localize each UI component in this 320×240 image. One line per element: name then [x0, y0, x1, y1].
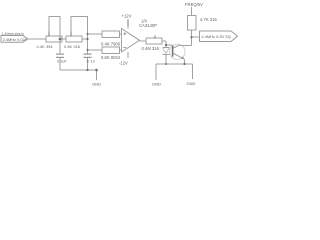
- svg-text:4.4MHz 0-5V SQ: 4.4MHz 0-5V SQ: [202, 34, 231, 39]
- svg-text:0.4K 394: 0.4K 394: [37, 44, 54, 49]
- svg-text:4.7K 316: 4.7K 316: [200, 17, 217, 22]
- svg-text:+12V: +12V: [122, 14, 132, 19]
- svg-text:1.4Vrms sine in: 1.4Vrms sine in: [2, 32, 25, 36]
- svg-text:GND: GND: [187, 81, 196, 86]
- svg-text:GND: GND: [92, 82, 101, 87]
- svg-text:0.6K 8034: 0.6K 8034: [101, 55, 121, 60]
- svg-text:FREQ/5V: FREQ/5V: [185, 2, 203, 7]
- svg-text:C-13: C-13: [87, 60, 95, 64]
- svg-text:CA3140P: CA3140P: [139, 23, 157, 28]
- svg-text:-12V: -12V: [119, 61, 128, 66]
- svg-text:0.4M 316: 0.4M 316: [142, 46, 160, 51]
- svg-text:0.1uF: 0.1uF: [57, 60, 67, 64]
- svg-text:0.4K 7906: 0.4K 7906: [101, 41, 121, 46]
- svg-text:2.4MHz 0.02V: 2.4MHz 0.02V: [3, 37, 28, 42]
- svg-text:0.4K 316: 0.4K 316: [64, 44, 81, 49]
- svg-text:GND: GND: [152, 81, 161, 86]
